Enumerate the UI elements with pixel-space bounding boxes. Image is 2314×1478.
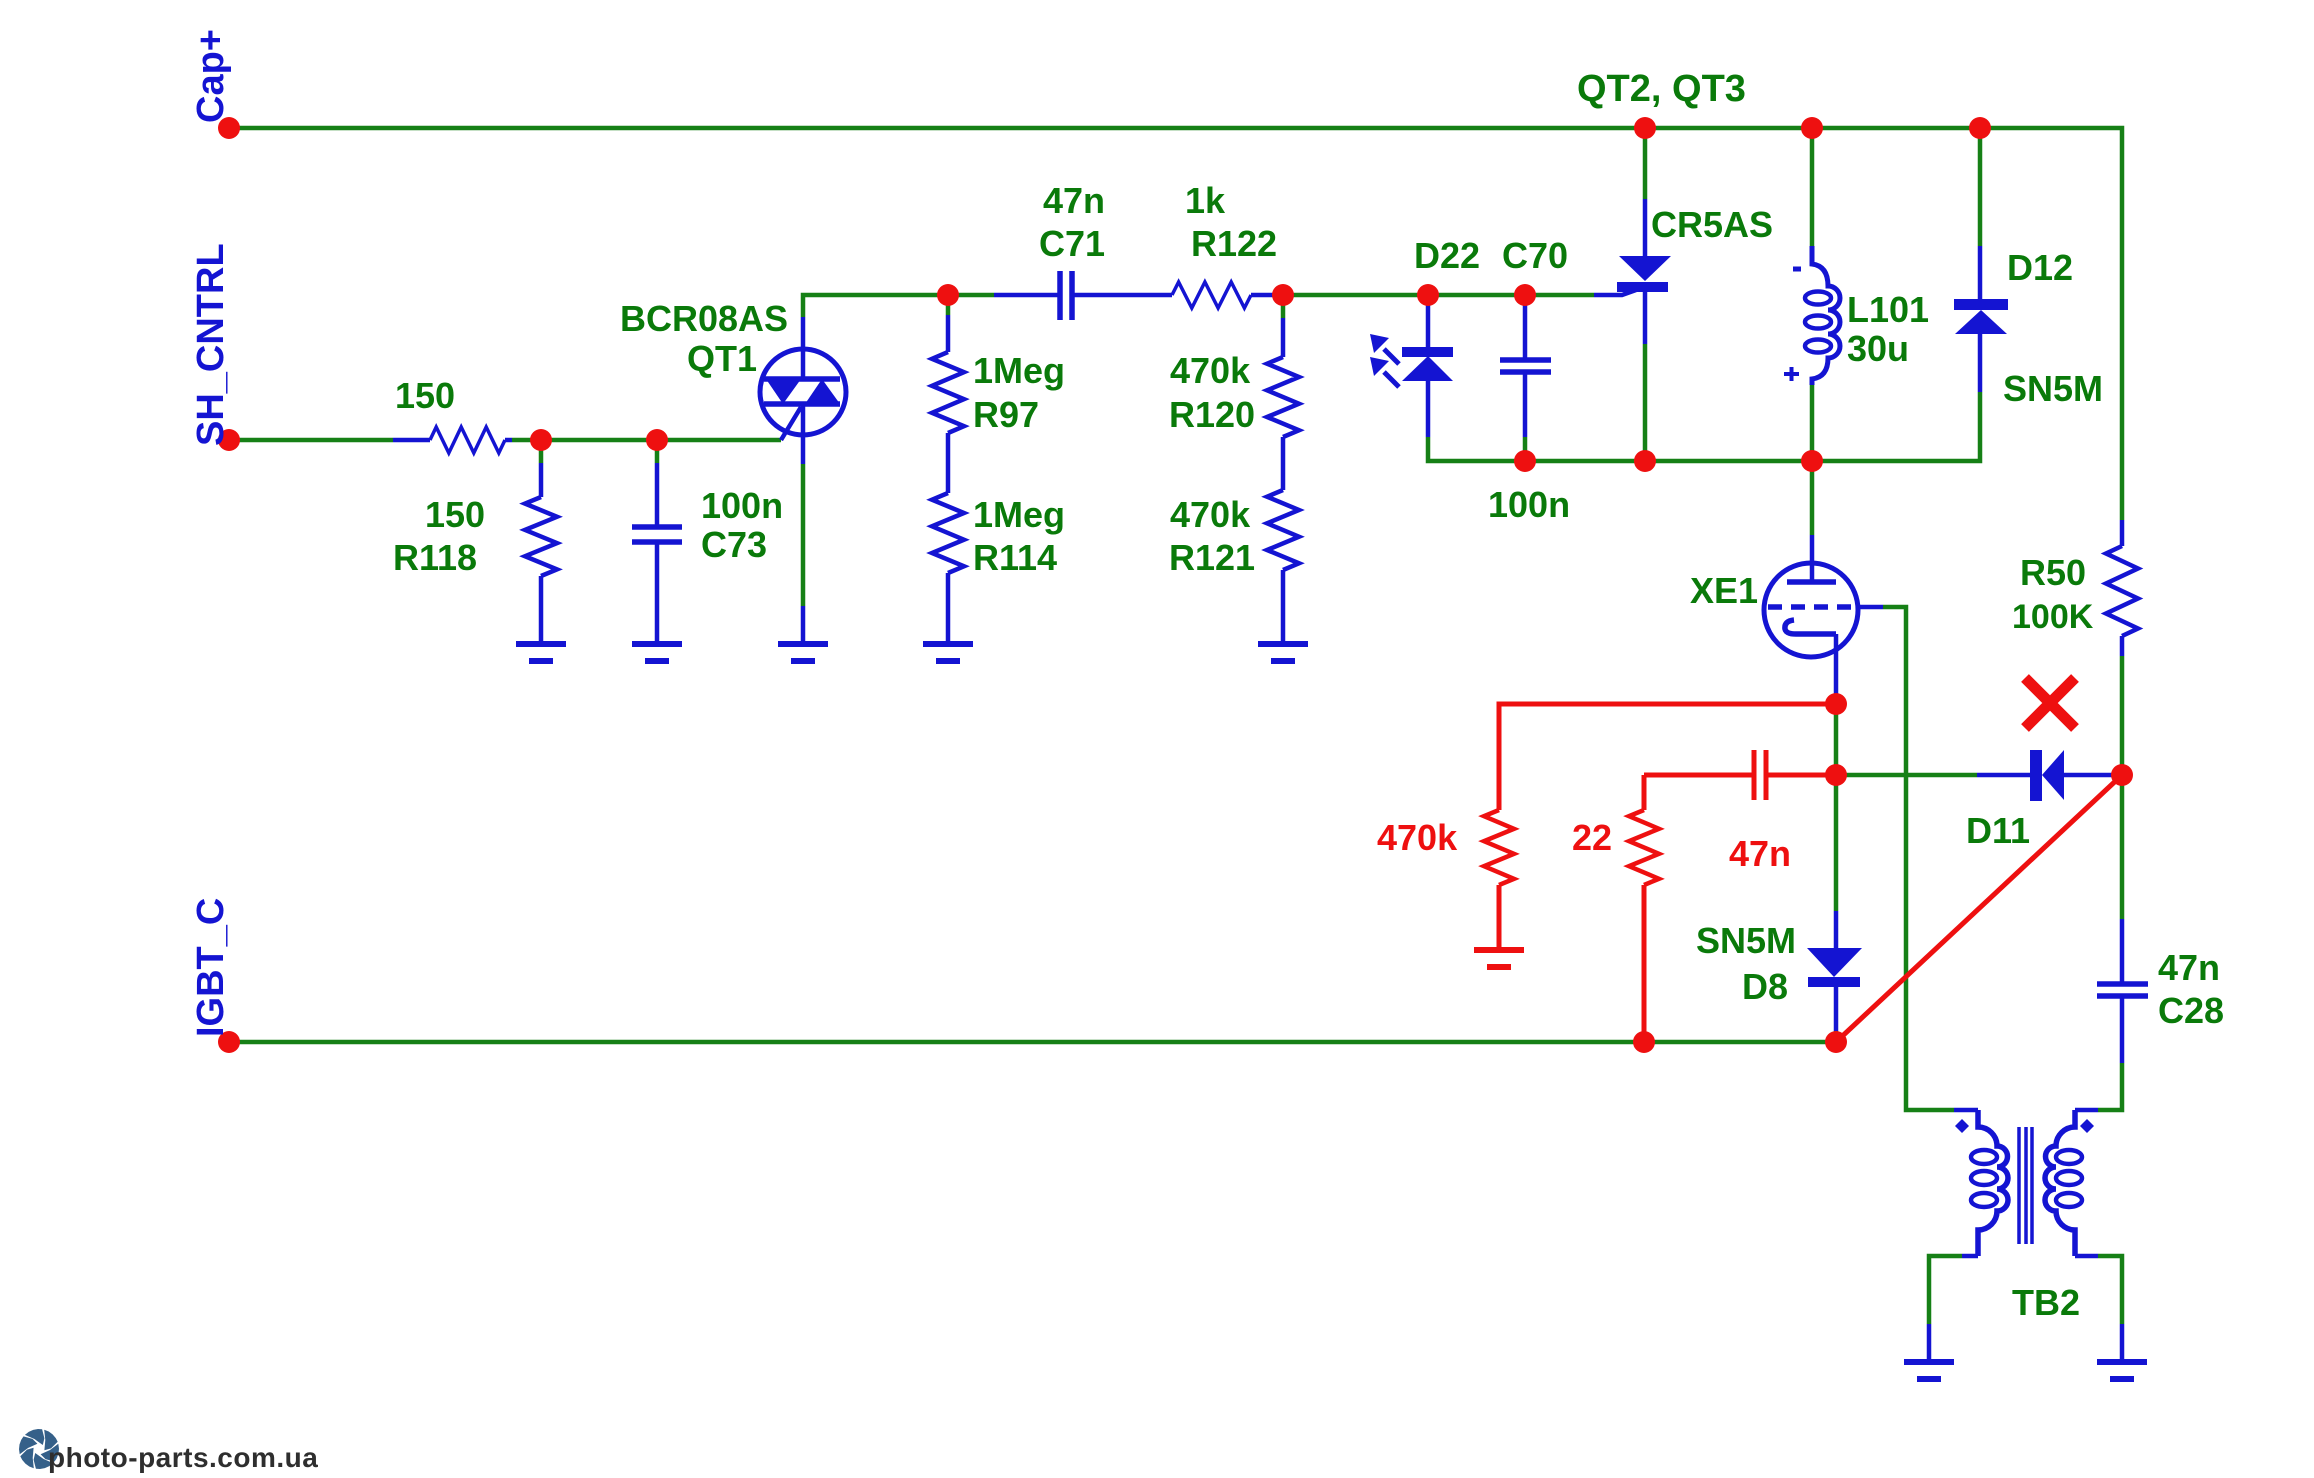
svg-text:QT2, QT3: QT2, QT3 xyxy=(1577,68,1746,110)
svg-text:470k: 470k xyxy=(1170,494,1251,535)
svg-text:R122: R122 xyxy=(1191,223,1277,264)
svg-text:22: 22 xyxy=(1572,817,1612,858)
svg-text:CR5AS: CR5AS xyxy=(1651,204,1773,245)
svg-text:IGBT_C: IGBT_C xyxy=(190,898,232,1037)
svg-text:Cap+: Cap+ xyxy=(190,29,232,123)
svg-text:100n: 100n xyxy=(1488,484,1570,525)
svg-text:QT1: QT1 xyxy=(687,338,757,379)
svg-text:47n: 47n xyxy=(1043,180,1105,221)
svg-text:SN5M: SN5M xyxy=(1696,920,1796,961)
svg-text:100n: 100n xyxy=(701,485,783,526)
svg-text:L101: L101 xyxy=(1847,289,1929,330)
svg-text:D12: D12 xyxy=(2007,247,2073,288)
svg-text:470k: 470k xyxy=(1170,350,1251,391)
svg-text:1Meg: 1Meg xyxy=(973,494,1065,535)
svg-text:150: 150 xyxy=(395,375,455,416)
svg-text:BCR08AS: BCR08AS xyxy=(620,298,788,339)
svg-text:C28: C28 xyxy=(2158,990,2224,1031)
svg-text:photo-parts.com.ua: photo-parts.com.ua xyxy=(48,1442,318,1473)
svg-text:C73: C73 xyxy=(701,524,767,565)
svg-text:R97: R97 xyxy=(973,394,1039,435)
svg-text:D11: D11 xyxy=(1966,810,2030,851)
svg-text:D8: D8 xyxy=(1742,966,1788,1007)
svg-text:R114: R114 xyxy=(973,537,1057,578)
svg-text:R50: R50 xyxy=(2020,552,2086,593)
svg-text:SN5M: SN5M xyxy=(2003,368,2103,409)
svg-text:470k: 470k xyxy=(1377,817,1458,858)
svg-text:47n: 47n xyxy=(1729,833,1791,874)
svg-text:R118: R118 xyxy=(393,537,477,578)
svg-text:D22: D22 xyxy=(1414,235,1480,276)
svg-text:47n: 47n xyxy=(2158,947,2220,988)
svg-text:R120: R120 xyxy=(1169,394,1255,435)
svg-text:XE1: XE1 xyxy=(1690,570,1758,611)
svg-text:1Meg: 1Meg xyxy=(973,350,1065,391)
svg-text:SH_CNTRL: SH_CNTRL xyxy=(190,243,232,446)
svg-text:R121: R121 xyxy=(1169,537,1255,578)
svg-text:100K: 100K xyxy=(2012,598,2094,636)
svg-text:1k: 1k xyxy=(1185,180,1226,221)
svg-text:150: 150 xyxy=(425,494,485,535)
svg-text:30u: 30u xyxy=(1847,328,1909,369)
svg-text:C71: C71 xyxy=(1039,223,1105,264)
svg-text:C70: C70 xyxy=(1502,235,1568,276)
svg-text:TB2: TB2 xyxy=(2012,1282,2080,1323)
